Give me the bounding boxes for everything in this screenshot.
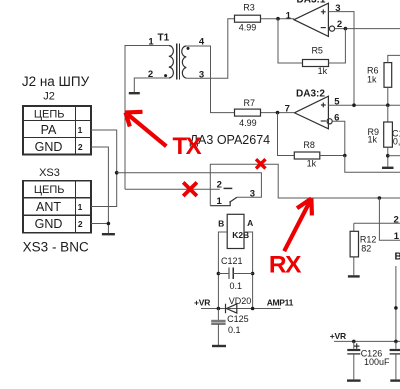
wire T1 pin2 to ground bbox=[134, 78, 169, 92]
wire R6 top to right edge bbox=[388, 55, 400, 62]
relay contact arm bbox=[210, 197, 237, 205]
annotation X mark on RX wire bbox=[256, 159, 266, 168]
wire GND J2 to GND XS3 bbox=[91, 147, 108, 224]
svg-text:DA3:2: DA3:2 bbox=[296, 88, 325, 99]
svg-text:2: 2 bbox=[78, 219, 83, 229]
node R9/C1 bbox=[386, 154, 390, 158]
wire ANT pin1 to node bbox=[91, 173, 117, 207]
resistor R9 bbox=[387, 105, 389, 122]
wire C121 bbox=[218, 273, 252, 275]
polarity dot T1 left bbox=[164, 74, 167, 77]
diode VD20 bbox=[226, 304, 237, 314]
wire +VR bottom rail bbox=[334, 340, 400, 342]
wire PA/ANT node to relay contact 3 bbox=[117, 173, 262, 198]
svg-text:1: 1 bbox=[78, 202, 83, 212]
wire TX to relay contact 2 bbox=[125, 188, 220, 190]
wire coil A lead bbox=[244, 232, 253, 309]
wire VD20 line bbox=[201, 308, 281, 310]
inverting input circle DA3:1 pin2 bbox=[329, 26, 334, 31]
svg-text:2: 2 bbox=[78, 142, 83, 152]
ground (XS3 GND) bbox=[102, 233, 115, 235]
svg-text:+VR: +VR bbox=[194, 298, 210, 308]
ground (C126) bbox=[347, 379, 361, 381]
svg-text:1: 1 bbox=[148, 36, 154, 47]
inverting input circle DA3:2 pin6 bbox=[327, 119, 332, 124]
svg-text:B: B bbox=[218, 218, 224, 228]
svg-text:R5: R5 bbox=[311, 45, 323, 55]
wire feedback to R5 bbox=[278, 19, 303, 63]
plus sign C126 bbox=[354, 343, 359, 348]
resistor R6 bbox=[384, 63, 392, 88]
svg-text:7: 7 bbox=[285, 104, 290, 115]
relay contact 2 pad bbox=[224, 187, 233, 189]
wire DA3:1 pin2 to right edge bbox=[335, 28, 400, 30]
svg-text:AMP11: AMP11 bbox=[267, 297, 294, 307]
capacitor C125 bbox=[217, 309, 219, 321]
transformer T1 left winding bbox=[169, 46, 174, 79]
wire relay contact 1 up and to RX bbox=[210, 164, 400, 205]
resistor R12 bbox=[350, 231, 358, 257]
node R7/DA3:2 bbox=[276, 111, 280, 115]
wire T1 pin3 to R3 bbox=[186, 19, 234, 78]
node pin2/R5 bbox=[344, 27, 348, 31]
svg-text:3: 3 bbox=[335, 3, 340, 14]
node R8/pin6 bbox=[343, 154, 347, 158]
node R3/DA3:1 out bbox=[276, 17, 280, 21]
ground (T1 pin2) bbox=[129, 92, 140, 94]
resistor R3 bbox=[235, 15, 261, 22]
resistor R7 bbox=[235, 109, 261, 116]
wire PA pin1 to node bbox=[91, 130, 117, 173]
wire T1 pin4 to R7 bbox=[186, 46, 234, 113]
svg-text:R3: R3 bbox=[243, 3, 255, 13]
wire GND XS3 bbox=[91, 224, 108, 234]
resistor R8 bbox=[294, 152, 320, 159]
svg-text:RX: RX bbox=[269, 251, 302, 278]
transformer T1 core bbox=[177, 44, 180, 80]
svg-text:6: 6 bbox=[334, 113, 339, 124]
node VD20 left bbox=[217, 307, 221, 311]
wire R12 bottom bbox=[353, 257, 355, 275]
node R6/R9/pin5 bbox=[386, 103, 390, 107]
ground (right cap) bbox=[390, 379, 400, 381]
minus sign DA3:1 bbox=[321, 27, 326, 29]
svg-text:1k: 1k bbox=[367, 75, 377, 85]
svg-text:1: 1 bbox=[78, 125, 83, 135]
svg-text:2: 2 bbox=[337, 19, 342, 30]
annotation RX arrow bbox=[284, 199, 312, 252]
wire T1 pin1 down to TX wire bbox=[125, 46, 169, 190]
wire DA3:2 pin6 down bbox=[332, 121, 345, 155]
svg-text:2: 2 bbox=[217, 180, 222, 191]
wire DA3:1 pin3 bbox=[328, 12, 354, 106]
svg-text:4.99: 4.99 bbox=[239, 118, 257, 128]
svg-text:+VR: +VR bbox=[330, 331, 346, 341]
plus sign DA3:1 bbox=[321, 9, 326, 14]
ground (C125) bbox=[212, 345, 226, 347]
wire feedback to R8 bbox=[278, 113, 295, 156]
relay coil K2B bbox=[227, 214, 244, 248]
wire DA3:2 pin5 to right edge bbox=[328, 104, 400, 106]
wire stub to cut capacitor C1 bbox=[388, 155, 400, 157]
svg-text:R7: R7 bbox=[244, 98, 256, 108]
svg-text:3: 3 bbox=[250, 189, 255, 200]
transformer T1 right winding bbox=[182, 46, 187, 78]
node PA/ANT junction bbox=[115, 171, 119, 175]
svg-text:В: В bbox=[395, 252, 400, 263]
svg-text:4.99: 4.99 bbox=[239, 22, 257, 32]
node GND junction bbox=[107, 222, 111, 226]
svg-text:1k: 1k bbox=[367, 135, 377, 145]
capacitor right edge (cut) bbox=[395, 341, 397, 348]
resistor R5 bbox=[303, 60, 329, 67]
wire right edge vertical bbox=[395, 266, 397, 341]
wire coil B lead bbox=[218, 232, 227, 309]
annotation TX arrow bbox=[126, 112, 167, 147]
wire R12 top lead bbox=[353, 223, 355, 231]
svg-text:1: 1 bbox=[217, 196, 223, 207]
svg-text:A: A bbox=[247, 218, 253, 228]
op-amp DA3:1 bbox=[294, 3, 328, 36]
svg-text:T1: T1 bbox=[158, 32, 170, 43]
svg-text:100uF: 100uF bbox=[364, 357, 390, 367]
node right cap bbox=[394, 340, 398, 344]
svg-text:1: 1 bbox=[394, 231, 400, 242]
wire R8 to pin6 node bbox=[320, 155, 345, 157]
svg-text:ЦЕПЬ: ЦЕПЬ bbox=[34, 184, 65, 196]
svg-text:PA: PA bbox=[41, 123, 57, 137]
capacitor C126 bbox=[353, 341, 355, 348]
wire R5 to pin2 node bbox=[329, 29, 346, 63]
svg-text:1: 1 bbox=[286, 10, 292, 21]
svg-text:C125: C125 bbox=[227, 314, 249, 324]
svg-text:5: 5 bbox=[334, 96, 340, 107]
svg-text:0.1: 0.1 bbox=[228, 325, 241, 335]
node VD20 right bbox=[251, 307, 255, 311]
ground (R9) bbox=[382, 167, 394, 169]
svg-text:0.1: 0.1 bbox=[230, 281, 243, 291]
op-amp DA3:2 bbox=[294, 96, 328, 129]
svg-text:ANT: ANT bbox=[36, 200, 61, 214]
wire R6 bottom to pin5 line bbox=[387, 87, 389, 105]
svg-text:XS3 - BNC: XS3 - BNC bbox=[23, 240, 89, 255]
annotation X mark on TX wire bbox=[183, 182, 197, 196]
connector table J2 bbox=[23, 106, 91, 155]
svg-text:TX: TX bbox=[173, 133, 202, 160]
svg-text:DA3:1: DA3:1 bbox=[297, 0, 326, 6]
svg-text:J2: J2 bbox=[43, 91, 55, 103]
plus sign DA3:2 bbox=[321, 103, 326, 108]
connector table XS3 bbox=[23, 181, 91, 233]
wire R12 top to right edge pin2 bbox=[354, 222, 400, 224]
svg-text:2: 2 bbox=[394, 214, 399, 225]
svg-text:1k: 1k bbox=[318, 66, 328, 76]
svg-text:C121: C121 bbox=[221, 256, 243, 266]
svg-text:82: 82 bbox=[361, 243, 371, 253]
svg-text:XS3: XS3 bbox=[39, 167, 60, 179]
node RX line bbox=[378, 196, 382, 200]
svg-text:GND: GND bbox=[35, 140, 63, 154]
minus sign DA3:2 bbox=[321, 120, 326, 122]
wire R3 to DA3:1 output bbox=[261, 18, 295, 20]
svg-text:GND: GND bbox=[35, 217, 63, 231]
svg-text:0,: 0, bbox=[393, 137, 400, 147]
wire R9 bottom bbox=[387, 147, 389, 166]
svg-text:1k: 1k bbox=[307, 158, 317, 168]
svg-text:J2 на ШПУ: J2 на ШПУ bbox=[22, 74, 90, 89]
ground (R12) bbox=[348, 275, 360, 277]
node pin3/pin5 bbox=[352, 103, 356, 107]
wire RX branch to R12 bbox=[379, 198, 400, 240]
polarity dot T1 right bbox=[187, 47, 190, 50]
capacitor C121 bbox=[229, 268, 233, 280]
wire R7 to DA3:2 input bbox=[261, 112, 295, 114]
wire pin6 node to right edge bbox=[345, 156, 400, 173]
node C121 left bbox=[217, 272, 221, 276]
svg-text:VD20: VD20 bbox=[229, 296, 252, 306]
node right edge bbox=[394, 306, 398, 310]
svg-text:ДА3 OPA2674: ДА3 OPA2674 bbox=[190, 133, 271, 147]
node C126 bbox=[352, 340, 356, 344]
svg-text:2: 2 bbox=[148, 69, 153, 80]
node C121 right bbox=[251, 272, 255, 276]
svg-text:R8: R8 bbox=[303, 140, 315, 150]
svg-text:ЦЕПЬ: ЦЕПЬ bbox=[34, 108, 65, 120]
svg-text:3: 3 bbox=[199, 69, 204, 80]
